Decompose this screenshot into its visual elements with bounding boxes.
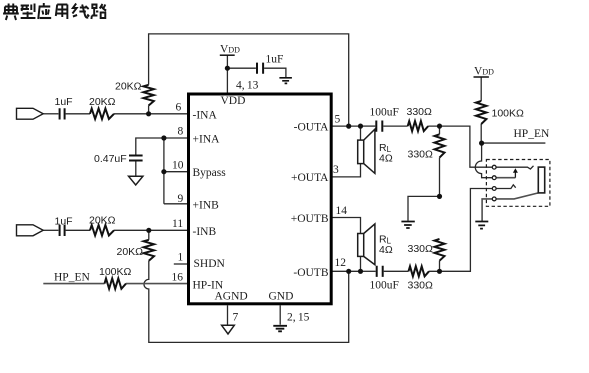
- svg-text:7: 7: [233, 312, 239, 324]
- 线: [72, 4, 89, 18]
- svg-text:+INA: +INA: [193, 134, 221, 146]
- wire: node B down to resB2: [148, 230, 150, 240]
- svg-text:330Ω: 330Ω: [408, 149, 434, 161]
- svg-text:1uF: 1uF: [55, 216, 73, 228]
- earth ground at VDD 1uF: [279, 78, 292, 84]
- wire: HP_EN line to pin16: [43, 283, 104, 285]
- title 典型应用线路 (hand-drawn strokes): [3, 3, 106, 20]
- wire: speakerA bottom stem + pin3: [331, 164, 361, 177]
- svg-text:20KΩ: 20KΩ: [89, 96, 116, 108]
- wire: pin1 stub: [174, 263, 189, 265]
- 路: [91, 4, 106, 19]
- wire: pin8 stub: [164, 137, 189, 139]
- wire: VDD stem top middle: [226, 55, 228, 93]
- svg-text:+OUTA: +OUTA: [291, 172, 329, 184]
- svg-text:330Ω: 330Ω: [407, 106, 433, 118]
- wire: mid node to earth: [408, 196, 440, 220]
- wire: pin10 stub: [164, 171, 189, 173]
- wire: capA2 to 330A: [383, 125, 407, 127]
- resistor 20K A series: [90, 109, 114, 119]
- wire: 330v1 leads: [439, 126, 441, 196]
- wire: resB to pin11: [114, 229, 189, 231]
- resistor 330 vertical lower: [435, 239, 445, 261]
- svg-text:11: 11: [172, 218, 183, 230]
- 用: [56, 5, 68, 20]
- wire: 330v2 lead bottom: [439, 261, 441, 272]
- svg-text:330Ω: 330Ω: [408, 280, 434, 292]
- svg-text:8: 8: [178, 126, 184, 138]
- wire: capB2 to 330B: [384, 270, 409, 272]
- svg-text:+INB: +INB: [193, 199, 220, 211]
- wire: +INA to 0.47uF cap: [136, 138, 164, 155]
- resistor 20K B series: [90, 225, 114, 235]
- wire: jack row2 c2 to arrow base: [496, 177, 515, 179]
- svg-text:12: 12: [335, 257, 347, 269]
- wire: jack row3 c3 tick: [496, 185, 515, 189]
- wire: HP_EN line right: [482, 142, 546, 144]
- earth ground at GND pin 2,15: [273, 326, 287, 332]
- wire: AGND stub: [227, 305, 229, 325]
- svg-text:330Ω: 330Ω: [408, 243, 434, 255]
- svg-text:-INA: -INA: [193, 110, 218, 122]
- svg-text:9: 9: [178, 193, 184, 205]
- wire: 0.47uF to ground: [135, 161, 137, 177]
- svg-text:100KΩ: 100KΩ: [492, 108, 525, 120]
- wire: resA to pin6: [114, 113, 189, 115]
- resistor 20K A feedback (vertical): [143, 85, 153, 106]
- IC U1 body: [189, 94, 332, 304]
- wire: speakerB bottom stem: [360, 256, 362, 271]
- resistor 330 A (horizontal): [408, 121, 429, 131]
- svg-text:SHDN: SHDN: [194, 258, 226, 270]
- svg-text:100KΩ: 100KΩ: [99, 266, 132, 278]
- 应: [38, 3, 51, 19]
- svg-text:5: 5: [335, 114, 341, 126]
- wire: -OUTA row to capA2: [361, 125, 376, 127]
- svg-text:1uF: 1uF: [55, 96, 73, 108]
- svg-text:20KΩ: 20KΩ: [115, 81, 142, 93]
- wire: capB to resB: [66, 229, 90, 231]
- svg-text:20KΩ: 20KΩ: [89, 215, 116, 227]
- capacitor 1uF VDD: [257, 63, 263, 74]
- svg-text:GND: GND: [269, 291, 294, 303]
- jack contact circles: [492, 165, 496, 201]
- svg-text:HP_EN: HP_EN: [54, 272, 90, 284]
- wire: 100K to HP_EN node: [480, 124, 482, 143]
- capacitor 100uF B: [377, 266, 383, 277]
- VDD symbol top middle: [220, 44, 240, 56]
- svg-text:3: 3: [333, 164, 339, 176]
- svg-text:-OUTB: -OUTB: [293, 267, 328, 279]
- svg-text:4Ω: 4Ω: [379, 153, 393, 165]
- svg-text:10: 10: [172, 160, 184, 172]
- 典: [3, 4, 19, 21]
- input connector A: [17, 108, 44, 119]
- wire: pin9 stub: [164, 203, 189, 205]
- wire: input B to cap: [43, 229, 58, 231]
- svg-text:4, 13: 4, 13: [236, 80, 259, 92]
- wire: jack row1 c1 to NC tick: [496, 166, 533, 169]
- resistor 100K pullup (vertical): [476, 101, 486, 124]
- svg-text:2, 15: 2, 15: [287, 312, 310, 324]
- wire: bypass bus vertical: [163, 138, 165, 204]
- wire: pin14 +OUTB to speakerB top: [331, 218, 361, 234]
- jack plug body: [538, 167, 544, 193]
- svg-text:Bypass: Bypass: [193, 167, 227, 179]
- input connector B: [17, 225, 44, 236]
- wire: feedback B down with hop over HP-IN: [144, 261, 349, 343]
- wire: pin12 stub -OUTB: [331, 270, 361, 272]
- wire: 330B to right riser up to jack row3: [429, 189, 492, 272]
- capacitor 100uF A: [376, 121, 382, 132]
- wire: feedback A up/top/down: [149, 34, 349, 126]
- speaker RL A: [358, 129, 375, 173]
- wire: GND stub: [279, 305, 281, 324]
- wire: 330A to corner, down, to jack row1: [428, 126, 492, 167]
- svg-text:-INB: -INB: [193, 226, 217, 238]
- VDD symbol top right: [474, 66, 495, 78]
- svg-text:VDD: VDD: [220, 44, 240, 56]
- svg-text:-OUTA: -OUTA: [294, 122, 330, 134]
- svg-text:+OUTB: +OUTB: [291, 213, 329, 225]
- wire: HP_EN down with hop, to jack row2: [475, 143, 492, 178]
- wire: -OUTB row to capB2: [361, 270, 376, 272]
- resistor 330 B (horizontal): [409, 266, 430, 276]
- svg-text:VDD: VDD: [221, 95, 246, 107]
- svg-text:1: 1: [178, 252, 184, 264]
- resistor 330 vertical upper: [435, 134, 445, 157]
- resistor 20K B feedback (vertical): [144, 240, 154, 261]
- wire: input A to cap: [43, 113, 58, 115]
- wire: capA to resA: [66, 113, 90, 115]
- svg-text:1uF: 1uF: [266, 54, 284, 66]
- svg-text:4Ω: 4Ω: [379, 244, 393, 256]
- svg-text:AGND: AGND: [215, 291, 248, 303]
- svg-text:14: 14: [336, 205, 348, 217]
- wire: jack row4 sleeve to ground: [482, 199, 492, 222]
- svg-text:HP_EN: HP_EN: [514, 128, 550, 140]
- capacitor 1uF input A: [60, 108, 65, 119]
- svg-text:20KΩ: 20KΩ: [117, 246, 144, 258]
- ground (open triangle) AGND pin7: [222, 325, 235, 334]
- wire: node A to resA2: [148, 106, 150, 114]
- wire: pin5 stub -OUTA: [331, 125, 361, 127]
- svg-text:0.47uF: 0.47uF: [94, 153, 127, 165]
- capacitor 1uF input B: [60, 225, 65, 236]
- earth ground mid (between 330s): [401, 222, 414, 229]
- headphone jack dashed box: [486, 160, 550, 207]
- svg-text:16: 16: [172, 272, 184, 284]
- wire: VDD right stem: [480, 77, 482, 101]
- speaker RL B: [358, 224, 375, 265]
- ground (open triangle) at 0.47uF: [129, 176, 143, 185]
- earth ground at jack sleeve: [475, 222, 488, 229]
- svg-text:100uF: 100uF: [370, 107, 399, 119]
- wire: jack row4 right diagonal to plug: [496, 193, 538, 199]
- wire: vdd node to cap: [227, 67, 256, 69]
- wire: speakerA top stem: [360, 126, 362, 140]
- jack actuation arrow: [513, 168, 518, 178]
- capacitor 0.47uF bypass: [129, 156, 143, 161]
- 型: [21, 4, 36, 19]
- svg-text:6: 6: [176, 102, 182, 114]
- resistor 100K HP_EN (bottom-left): [105, 278, 127, 288]
- svg-text:100uF: 100uF: [370, 280, 399, 292]
- wire: cap to earth: [264, 68, 286, 77]
- svg-text:VDD: VDD: [474, 66, 494, 78]
